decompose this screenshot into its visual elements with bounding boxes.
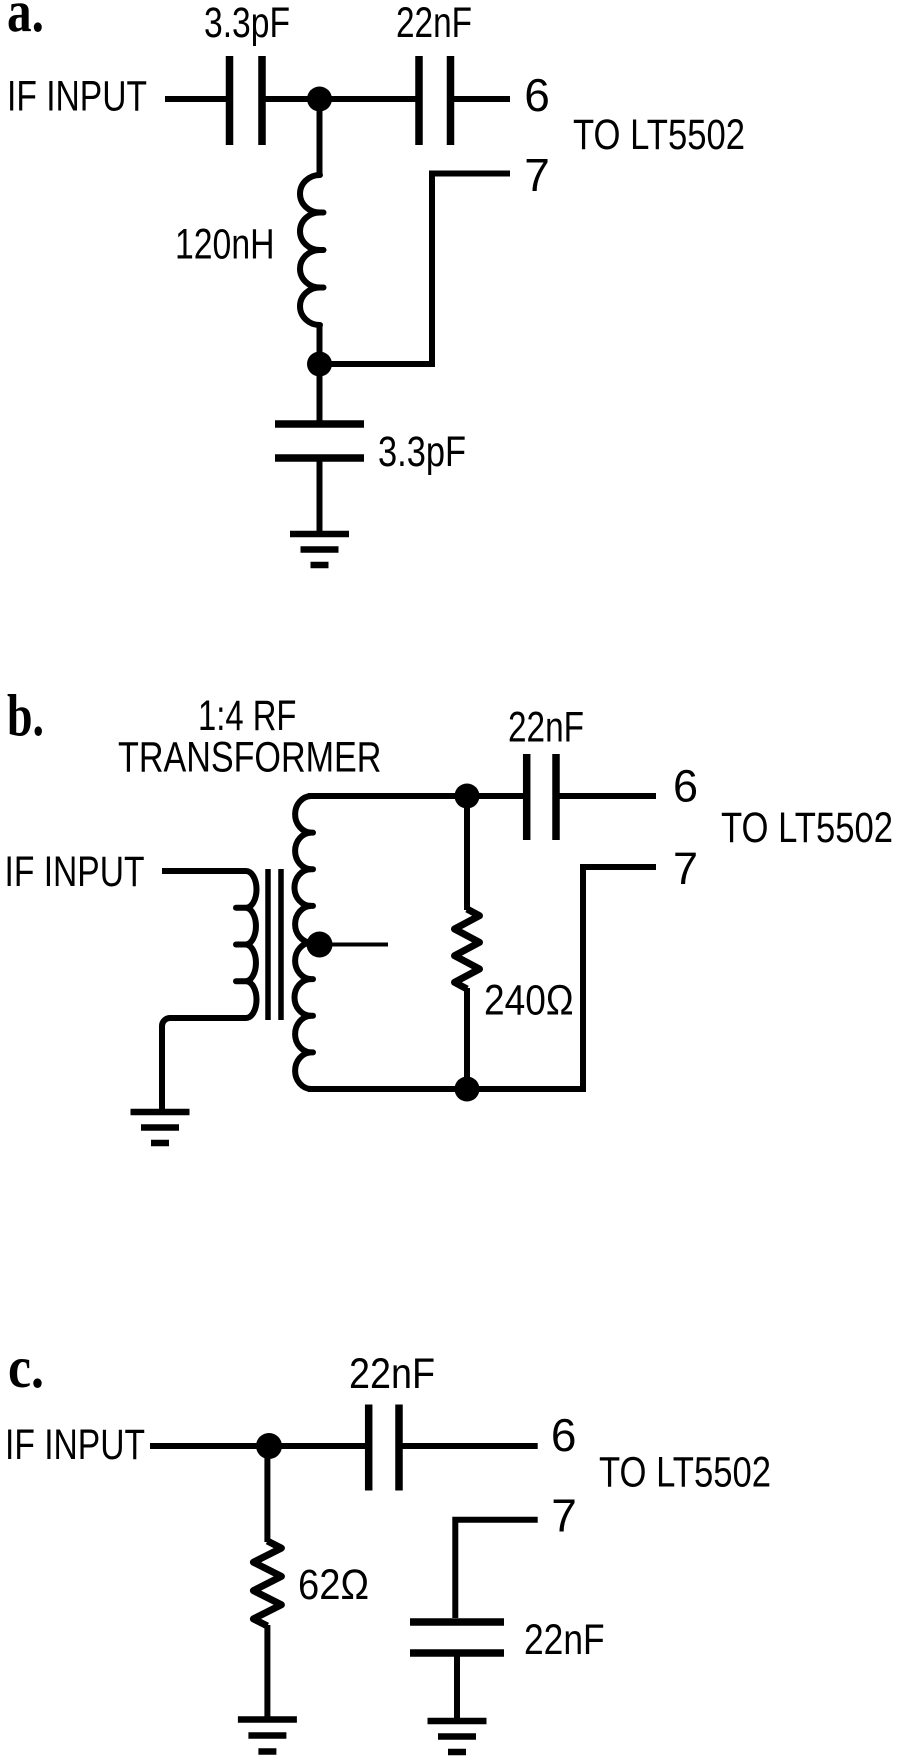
capacitor 22nF series (a) (415, 56, 423, 145)
svg-text:7: 7 (551, 1490, 577, 1542)
capacitor 22nF series (b) (523, 754, 531, 840)
wire inductor to node 2 (a) (317, 323, 323, 421)
wire primary bottom to ground (b) (162, 1018, 246, 1110)
wire cap to ground (c) (454, 1653, 460, 1721)
svg-text:a.: a. (7, 0, 44, 44)
svg-text:b.: b. (7, 682, 44, 748)
wire IF input to C1 (a) (165, 96, 226, 102)
ground under cap (c) (428, 1718, 487, 1725)
wire cap to pin 6 (b) (560, 793, 657, 799)
node junction dot top (b) (455, 784, 480, 809)
wire pin 7 branch (c) (455, 1520, 537, 1618)
svg-text:22nF: 22nF (524, 1616, 605, 1664)
svg-text:22nF: 22nF (508, 704, 584, 752)
transformer primary winding (b) (246, 871, 257, 1018)
wire C1 to node (a) (266, 96, 417, 102)
transformer core lines (265, 869, 271, 1020)
wire secondary bottom (b) (308, 1086, 583, 1092)
svg-text:TO LT5502: TO LT5502 (573, 111, 745, 159)
node junction dot bottom (b) (455, 1077, 480, 1102)
svg-text:3.3pF: 3.3pF (378, 428, 466, 476)
capacitor 22nF series (c) (365, 1405, 373, 1491)
node junction dot (c) (256, 1433, 282, 1459)
resistor 240 ohm (b) (464, 796, 470, 910)
wire pin 7 branch (b) (467, 867, 656, 1089)
svg-text:3.3pF: 3.3pF (204, 0, 290, 47)
capacitor 3.3pF shunt (a) (275, 420, 364, 428)
node junction dot top (a) (307, 87, 332, 112)
svg-text:TRANSFORMER: TRANSFORMER (118, 734, 381, 782)
wire IF input to node (c) (150, 1443, 365, 1449)
svg-text:7: 7 (673, 843, 698, 894)
center tap dot and stub (b) (307, 932, 333, 958)
capacitor 22nF shunt (c) (410, 1618, 504, 1626)
inductor 120nH (a) (300, 175, 320, 325)
svg-text:120nH: 120nH (175, 221, 275, 269)
svg-text:TO LT5502: TO LT5502 (721, 804, 893, 852)
svg-text:TO LT5502: TO LT5502 (599, 1449, 771, 1497)
svg-text:6: 6 (673, 761, 698, 812)
ground (b) (131, 1109, 190, 1116)
svg-text:IF INPUT: IF INPUT (5, 848, 145, 896)
svg-text:c.: c. (8, 1334, 44, 1400)
svg-text:6: 6 (551, 1409, 577, 1461)
ground under resistor (c) (238, 1716, 297, 1723)
wire secondary top to node (b) (308, 793, 523, 799)
transformer secondary winding (b) (294, 796, 311, 1089)
svg-text:IF INPUT: IF INPUT (5, 1421, 145, 1469)
svg-text:22nF: 22nF (396, 0, 472, 47)
wire node to inductor (a) (317, 99, 323, 176)
resistor 62 ohm (c) (264, 1446, 270, 1542)
wire pin 7 branch (a) (320, 174, 511, 365)
wire C2 to pin 6 (a) (454, 96, 510, 102)
wire IF input to primary (b) (162, 868, 246, 874)
ground (a) (290, 531, 349, 538)
svg-text:IF INPUT: IF INPUT (7, 73, 147, 121)
wire cap to pin 6 (c) (403, 1443, 538, 1449)
svg-text:6: 6 (524, 69, 550, 121)
wire cap to ground (a) (317, 458, 323, 534)
svg-text:62Ω: 62Ω (298, 1561, 369, 1609)
svg-text:22nF: 22nF (349, 1350, 435, 1398)
capacitor 3.3pF series (a) (226, 56, 234, 145)
svg-text:240Ω: 240Ω (484, 977, 574, 1025)
svg-text:7: 7 (524, 149, 550, 201)
node junction dot bottom (a) (307, 352, 332, 377)
